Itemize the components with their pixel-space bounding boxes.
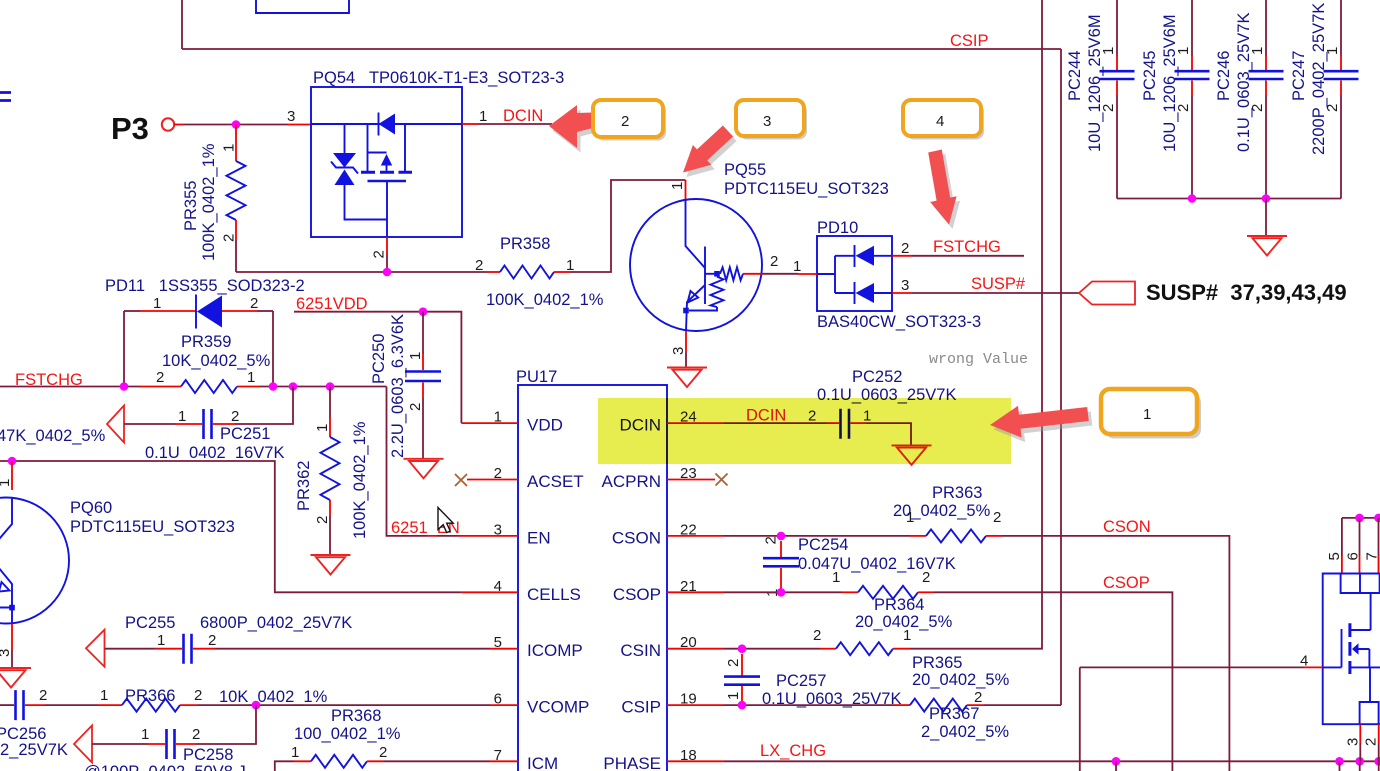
svg-text:PR363: PR363: [932, 484, 982, 502]
svg-text:CSIP: CSIP: [621, 698, 661, 717]
svg-text:PR359: PR359: [181, 333, 231, 351]
svg-text:3: 3: [763, 113, 771, 130]
junction node FSTCHG / PD11 left: [120, 382, 129, 391]
svg-text:1: 1: [221, 144, 238, 152]
capacitor PC254: [763, 558, 799, 566]
pin 1 of PC250: [422, 312, 424, 354]
svg-text:22: 22: [680, 521, 697, 538]
svg-text:1: 1: [407, 352, 424, 360]
pin 19 CSIP: [667, 704, 724, 706]
svg-text:18: 18: [680, 747, 697, 764]
svg-text:CSIN: CSIN: [620, 641, 661, 660]
svg-text:4: 4: [494, 578, 502, 595]
capacitor PC251: [204, 409, 212, 439]
junction node FSTCHG / PR362: [326, 382, 335, 391]
svg-text:3: 3: [901, 277, 909, 294]
svg-text:6: 6: [1345, 552, 1362, 560]
wire: PC251 up to FSTCHG: [235, 387, 293, 425]
pin 6 VCOMP: [490, 704, 518, 706]
junction node 6251VDD / PC250: [419, 307, 428, 316]
wire: arrow to PC251: [124, 423, 175, 425]
svg-text:2: 2: [250, 295, 258, 312]
pin 3 of PD10 / SUSP#: [892, 292, 912, 294]
arrow 2 shadow: [553, 110, 612, 153]
wire: PQ54 gate lead down: [386, 181, 388, 237]
wire: CELLS routing from PQ60: [0, 461, 462, 592]
pin 1 of PC251: [175, 423, 202, 425]
svg-text:2: 2: [494, 465, 502, 482]
junction node top bus pin7: [1374, 514, 1380, 523]
svg-text:PC245: PC245: [1141, 51, 1159, 101]
pin 22 CSON: [667, 535, 724, 537]
svg-text:5: 5: [494, 634, 502, 651]
svg-text:10U_1206_25V6M: 10U_1206_25V6M: [1086, 14, 1104, 152]
svg-text:7: 7: [1364, 552, 1380, 560]
svg-text:2: 2: [725, 659, 742, 667]
ground below PC252: [892, 445, 932, 465]
pin 5 ICOMP: [490, 648, 518, 650]
svg-text:CSON: CSON: [1103, 518, 1151, 536]
pin 1 of PR367: [894, 704, 910, 706]
arrow 1: [990, 406, 1089, 438]
junction node CSOP / PC254: [777, 588, 786, 597]
wire: PQ54 internal verticals: [345, 124, 406, 171]
svg-text:2: 2: [192, 726, 200, 743]
svg-text:100K_0402_1%: 100K_0402_1%: [351, 421, 369, 539]
pin 1 of PQ54 / DCIN stub: [462, 123, 478, 125]
svg-text:1: 1: [141, 726, 149, 743]
svg-text:1: 1: [100, 687, 108, 704]
svg-text:ICOMP: ICOMP: [527, 641, 583, 660]
pin 2 of PC251: [213, 423, 235, 425]
ground below PR362: [311, 555, 351, 575]
wire: CSOP pin 21 rail: [724, 591, 842, 593]
svg-text:1: 1: [0, 479, 13, 487]
wire: PC258 up to PR366 junction: [196, 705, 256, 744]
wire: FSTCHG corner down to EN pin: [387, 387, 459, 536]
wire: stub below 1339.5: [1339, 761, 1341, 771]
svg-text:PQ60: PQ60: [70, 499, 112, 517]
svg-text:PC244: PC244: [1066, 51, 1084, 101]
svg-text:PDTC115EU_SOT323: PDTC115EU_SOT323: [70, 518, 235, 536]
wire: PD11 left leg: [123, 311, 125, 387]
junction node bus x=1378.7: [1374, 757, 1380, 766]
pin 2 of PR362: [329, 500, 331, 516]
svg-text:2: 2: [194, 687, 202, 704]
junction node bus / PC245: [1188, 194, 1197, 203]
pin 7 ICM: [490, 760, 518, 762]
arrow 2: [549, 105, 608, 148]
pin 24 DCIN: [667, 422, 724, 424]
pin 1 of PR358: [554, 271, 570, 273]
callout box 1 shadow: [1105, 394, 1201, 439]
capacitor PC247: [1340, 0, 1342, 56]
svg-text:PC255: PC255: [125, 614, 175, 632]
wire: 6251VDD rail: [294, 312, 461, 423]
svg-text:21: 21: [680, 578, 697, 595]
junction node bus x=1339.5: [1335, 757, 1344, 766]
svg-text:10K_0402_5%: 10K_0402_5%: [162, 352, 271, 370]
pin 2 of PC252: [827, 422, 839, 424]
pin 2 of PR365: [820, 648, 836, 650]
wire: PC255 to ICOMP pin: [215, 648, 490, 650]
highlight yellow over DCIN row: [598, 398, 1011, 464]
pin 1 of PC258: [148, 743, 165, 745]
svg-text:0.047U_0402_16V7K: 0.047U_0402_16V7K: [798, 555, 956, 573]
wire: PC252 to ground: [866, 423, 911, 445]
svg-text:wrong Value: wrong Value: [929, 351, 1028, 368]
pin 1 of PR355: [235, 125, 237, 162]
pin 2 of PR363: [986, 535, 1002, 537]
pin 1 of PD11: [124, 310, 140, 312]
svg-text:CSOP: CSOP: [1103, 574, 1150, 592]
diode PD11: [195, 295, 197, 329]
transistor PQ55 internals: [686, 200, 706, 331]
svg-text:2: 2: [901, 240, 909, 257]
svg-text:VDD: VDD: [527, 416, 563, 435]
pin 1 of PR359: [237, 386, 259, 388]
wire: internal source-drain rail of PQ54: [311, 123, 462, 125]
arrow 4: [928, 150, 956, 225]
pin 1 of PR365: [893, 648, 910, 650]
connector: off-page arrow left of PC255: [86, 630, 105, 667]
pin 5 of MOSFET: [1341, 518, 1343, 556]
svg-text:ACSET: ACSET: [527, 472, 584, 491]
svg-text:CELLS: CELLS: [527, 585, 581, 604]
pin 1 of PR368: [294, 760, 311, 762]
svg-text:CSOP: CSOP: [613, 585, 661, 604]
capacitor PC255: [184, 634, 192, 664]
transistor PQ54 body arrow: [368, 152, 387, 154]
svg-text:7: 7: [494, 747, 502, 764]
svg-text:PC257: PC257: [776, 672, 826, 690]
svg-text:1: 1: [479, 108, 487, 125]
svg-text:PR367: PR367: [929, 705, 979, 723]
svg-text:4: 4: [1300, 653, 1308, 670]
svg-text:100_0402_1%: 100_0402_1%: [294, 725, 401, 743]
wire: PR368 to ICM pin: [384, 760, 490, 762]
capacitor PC245: [1191, 0, 1193, 56]
svg-text:3: 3: [0, 649, 13, 657]
callout box 1: [1101, 389, 1197, 434]
wire: LX_CHG rail y=760.5: [724, 760, 1380, 762]
callout box 2: [593, 100, 663, 137]
callout box 2 shadow: [596, 104, 666, 141]
pin 1 of PC252: [851, 422, 867, 424]
transistor MOSFET drain link: [1351, 593, 1371, 630]
wire: CSON to right riser: [1002, 536, 1229, 771]
pin 23 ACPRN: [667, 479, 715, 481]
svg-text:2: 2: [621, 113, 629, 130]
junction node PR366 / PC258: [252, 701, 261, 710]
svg-text:PR364: PR364: [874, 596, 924, 614]
svg-text:2: 2: [379, 744, 387, 761]
wire: capacitor bank bottom bus: [1117, 198, 1341, 200]
svg-text:6800P_0402_25V7K: 6800P_0402_25V7K: [200, 614, 352, 632]
capacitor PC244: [1116, 0, 1118, 56]
svg-text:10U_1206_25V6M: 10U_1206_25V6M: [1161, 14, 1179, 152]
svg-text:PDTC115EU_SOT323: PDTC115EU_SOT323: [724, 180, 889, 198]
svg-text:PC246: PC246: [1215, 51, 1233, 101]
mouse cursor: [438, 508, 453, 533]
capacitor PC250: [405, 372, 441, 382]
wire: riser below pin4 rail: [1079, 667, 1081, 771]
svg-text:PC247: PC247: [1290, 51, 1308, 101]
svg-text:1: 1: [832, 569, 840, 586]
pin 2 of PD10 / FSTCHG: [892, 255, 912, 257]
pin 2 of PC256: [25, 704, 45, 706]
svg-text:2: 2: [314, 516, 331, 524]
wire: arrow to PC258: [92, 743, 148, 745]
svg-text:PR362: PR362: [295, 461, 313, 511]
svg-text:1: 1: [793, 258, 801, 275]
junction node bus x=1116: [1112, 757, 1121, 766]
pin 2 of PR367: [967, 704, 984, 706]
svg-text:0.1U_0402_16V7K: 0.1U_0402_16V7K: [145, 444, 284, 462]
svg-text:1: 1: [725, 692, 742, 700]
diode PD10 box: [817, 236, 892, 311]
svg-text:4: 4: [936, 113, 944, 130]
svg-text:ACPRN: ACPRN: [601, 472, 661, 491]
transistor Q? power MOSFET outline box: [1323, 574, 1380, 725]
svg-text:47K_0402_5%: 47K_0402_5%: [0, 427, 106, 445]
capacitor PC246: [1265, 0, 1267, 56]
transistor PQ55 circle: [630, 199, 762, 331]
svg-text:20: 20: [680, 634, 697, 651]
wire: bus to ground: [1265, 199, 1267, 237]
arrow 4 shadow: [932, 154, 960, 229]
resistor PR367 zigzag: [910, 699, 967, 712]
svg-text:PD11 1SS355_SOD323-2: PD11 1SS355_SOD323-2: [105, 277, 305, 295]
junction node CSIP / PC257: [738, 701, 747, 710]
pin 1 of PC257: [741, 686, 743, 701]
svg-text:2: 2: [231, 408, 239, 425]
svg-text:ICM: ICM: [527, 754, 558, 771]
wire: top bus y=517.9: [1342, 517, 1380, 519]
svg-text:PC258: PC258: [183, 746, 233, 764]
resistor PR358 zigzag: [500, 266, 554, 279]
svg-text:20_0402_5%: 20_0402_5%: [893, 502, 991, 520]
diode: PQ54 gate zener upper: [333, 153, 356, 168]
connector: off-page arrow left of PC251: [107, 406, 124, 443]
svg-text:20_0402_5%: 20_0402_5%: [912, 671, 1010, 689]
resistor PR363 zigzag: [926, 529, 986, 542]
svg-text:2: 2: [763, 536, 780, 544]
pin 3 of PQ60: [11, 624, 13, 651]
diode: PQ54 gate zener bar: [331, 162, 358, 174]
transistor MOSFET source link: [1351, 667, 1380, 702]
capacitor PC256: [16, 690, 24, 720]
svg-text:2: 2: [1363, 738, 1380, 746]
svg-text:EN: EN: [527, 528, 551, 547]
pin 3 of PQ55: [685, 331, 687, 352]
wire: PC256 to PR366: [45, 704, 98, 706]
transistor PQ55 emitter arrow: [688, 291, 699, 303]
wire: FSTCHG down to PR362: [329, 387, 331, 419]
wire: bottom edge riser to PR368: [275, 761, 294, 771]
wire: CSON pin 22 rail: [724, 535, 910, 537]
pin 1 of PC255: [155, 648, 182, 650]
arrow 1 shadow: [994, 410, 1093, 442]
svg-text:FSTCHG: FSTCHG: [933, 238, 1001, 256]
pin 2 of PC255: [193, 648, 215, 650]
svg-text:2200P_0402_25V7K: 2200P_0402_25V7K: [1310, 3, 1328, 155]
junction node CSIN / PC257: [738, 644, 747, 653]
resistor PR364 zigzag: [858, 586, 918, 599]
pin 2 of PR358: [487, 271, 500, 273]
svg-text:2: 2: [156, 369, 164, 386]
svg-text:100K_0402_1%: 100K_0402_1%: [200, 143, 218, 261]
svg-text:2: 2: [770, 253, 778, 270]
svg-text:SUSP# 37,39,43,49: SUSP# 37,39,43,49: [1146, 280, 1347, 305]
svg-text:2: 2: [974, 689, 982, 706]
arrow 3: [683, 126, 733, 173]
svg-text:SUSP#: SUSP#: [971, 275, 1026, 293]
junction node PQ54 gate: [383, 268, 392, 277]
svg-text:3: 3: [287, 108, 295, 125]
pin 2 of PR364: [918, 591, 934, 593]
pin 2 of PR366: [180, 704, 198, 706]
svg-text:3: 3: [1345, 738, 1362, 746]
no-connect X on ACSET: [455, 474, 467, 486]
pin 2 of PC257: [741, 654, 743, 676]
wire: CSIP joins riser x=1061: [984, 704, 1061, 706]
pin 1 of PR364: [842, 591, 858, 593]
svg-text:2_0402_5%: 2_0402_5%: [921, 723, 1009, 741]
pin 2 of PR355: [235, 220, 237, 240]
svg-text:CSON: CSON: [612, 528, 661, 547]
ground below PC250: [404, 459, 444, 479]
svg-text:19: 19: [680, 691, 697, 708]
pin 2 of PR368: [367, 760, 384, 762]
svg-text:23: 23: [680, 465, 697, 482]
svg-text:6: 6: [494, 691, 502, 708]
wire: FSTCHG rail y=386.5: [0, 386, 140, 388]
resistor PR362 zigzag: [321, 437, 340, 500]
wire: CSOP to right riser: [934, 592, 1172, 771]
wire: partial blue box at top edge: [256, 0, 349, 13]
transistor MOSFET body arrow: [1352, 643, 1359, 655]
connector: SUSP# off-page pentagon: [1079, 282, 1135, 305]
transistor MOSFET top pin cells: [1341, 574, 1380, 594]
junction node bus x=1359.7: [1355, 757, 1364, 766]
svg-text:1: 1: [903, 627, 911, 644]
svg-text:PQ54 TP0610K-T1-E3_SOT23-3: PQ54 TP0610K-T1-E3_SOT23-3: [313, 69, 564, 87]
svg-text:PC254: PC254: [798, 536, 848, 554]
op-amp U17 box: [518, 385, 667, 771]
junction node FSTCHG / PD11 right: [269, 382, 278, 391]
resistor PR355 zigzag: [227, 161, 246, 220]
callout box 3 shadow: [739, 104, 807, 140]
pin 1 of PQ55: [685, 180, 687, 200]
pin 2 of PC250: [422, 383, 424, 399]
svg-text:PHASE: PHASE: [603, 754, 661, 771]
svg-text:3: 3: [494, 521, 502, 538]
svg-text:PC250: PC250: [370, 334, 388, 384]
svg-text:1: 1: [153, 295, 161, 312]
svg-text:CSIP: CSIP: [950, 32, 989, 50]
diode: body diode of PQ54: [378, 113, 380, 136]
diode: PQ54 gate zener lower: [335, 170, 355, 186]
pin 7 of MOSFET: [1378, 518, 1380, 556]
svg-text:1: 1: [669, 182, 686, 190]
svg-text:10K_0402_1%: 10K_0402_1%: [219, 688, 328, 706]
svg-text:PU17: PU17: [516, 368, 557, 386]
wire: PR366 to VCOMP pin: [198, 704, 490, 706]
junction node FSTCHG / PC251: [289, 382, 298, 391]
pin 2 ACSET: [467, 479, 518, 481]
wire: PR358 to PQ55 base feed: [570, 180, 686, 272]
pin 4 of MOSFET gate: [1080, 666, 1304, 668]
svg-text:1: 1: [314, 424, 331, 432]
wire: CSIN pin 20 rail: [724, 648, 820, 650]
wire: stub below 1378.7: [1378, 761, 1380, 771]
pin 2 of PQ55: [743, 273, 762, 275]
wire: CSIN to top edge riser: [910, 0, 1042, 649]
capacitor PC258: [167, 729, 175, 759]
svg-text:DCIN: DCIN: [503, 107, 543, 125]
svg-text:PC252: PC252: [852, 368, 902, 386]
no-connect X on ACPRN: [716, 474, 728, 486]
wire: left edge to PC256: [0, 704, 14, 706]
pin 2 of MOSFET: [1378, 724, 1380, 743]
junction node CSON / PC254: [777, 532, 786, 541]
svg-text:PR358: PR358: [500, 235, 550, 253]
connector: off-page arrow left of PC258: [74, 726, 92, 763]
wire: schematic border segment top-left: [181, 0, 183, 49]
pin 3 of MOSFET: [1359, 724, 1361, 743]
svg-text:BAS40CW_SOT323-3: BAS40CW_SOT323-3: [817, 313, 981, 331]
pin 2 of PQ54: [386, 237, 388, 254]
pin 1 of PR366: [98, 704, 122, 706]
svg-text:VCOMP: VCOMP: [527, 698, 589, 717]
svg-text:2_25V7K: 2_25V7K: [0, 741, 68, 759]
svg-text:2: 2: [221, 234, 238, 242]
pin 21 CSOP: [667, 591, 724, 593]
svg-text:1: 1: [157, 632, 165, 649]
resistor PR366 zigzag: [122, 699, 180, 712]
capacitor PC252: [841, 409, 850, 439]
pin 2 of PD11: [222, 310, 257, 312]
pin 20 CSIN: [667, 648, 724, 650]
junction node top bus pin6: [1355, 514, 1364, 523]
svg-text:2: 2: [475, 257, 483, 274]
pin 1 of PR362: [329, 418, 331, 437]
capacitor PC257: [724, 677, 760, 685]
transistor MOSFET gate internals: [1323, 629, 1342, 667]
wire: CSIP horizontal net y=49: [182, 48, 1061, 50]
wire: FSTCHG rail continues: [259, 386, 387, 388]
svg-text:1: 1: [494, 409, 502, 426]
pin 4 CELLS: [462, 591, 518, 593]
svg-text:PR355: PR355: [182, 181, 200, 231]
svg-text:1: 1: [247, 369, 255, 386]
junction node PQ60 collector: [8, 457, 17, 466]
wire: stub below 1359.7: [1359, 761, 1361, 771]
pin 2 of PC254: [780, 541, 782, 558]
svg-text:2: 2: [208, 632, 216, 649]
pin 1 of PD10: [798, 273, 817, 275]
svg-text:6251VDD: 6251VDD: [296, 295, 368, 313]
pin 2 of PR359: [140, 386, 181, 388]
resistor: PQ55 base-emitter resistor: [711, 277, 724, 307]
pin 1 VDD: [461, 422, 518, 424]
svg-text:100K_0402_1%: 100K_0402_1%: [486, 291, 604, 309]
diode PD10 upper: [854, 245, 856, 267]
wire: PD10 internal tee: [817, 256, 855, 293]
svg-text:2: 2: [371, 250, 388, 258]
svg-text:2: 2: [407, 403, 424, 411]
